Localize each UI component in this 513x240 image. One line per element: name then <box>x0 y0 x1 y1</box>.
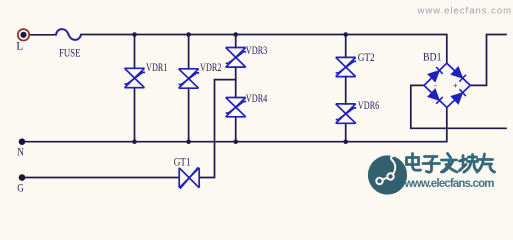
svg-text:VDR4: VDR4 <box>246 93 268 105</box>
svg-text:VDR6: VDR6 <box>358 100 380 112</box>
svg-text:www.elecfans.com: www.elecfans.com <box>417 6 512 17</box>
svg-text:VDR3: VDR3 <box>246 45 268 57</box>
svg-text:L: L <box>16 40 23 52</box>
svg-text:GT1: GT1 <box>174 157 191 169</box>
svg-text:G: G <box>17 183 24 195</box>
svg-text:VDR1: VDR1 <box>146 62 168 74</box>
svg-text:VDR2: VDR2 <box>200 62 222 74</box>
svg-text:FUSE: FUSE <box>59 48 81 60</box>
svg-text:BD1: BD1 <box>423 51 442 63</box>
svg-text:-: - <box>434 81 437 90</box>
svg-text:N: N <box>17 147 24 159</box>
svg-text:www.elecfans.com: www.elecfans.com <box>404 178 495 190</box>
svg-text:GT2: GT2 <box>358 52 375 64</box>
svg-text:+: + <box>453 81 458 90</box>
